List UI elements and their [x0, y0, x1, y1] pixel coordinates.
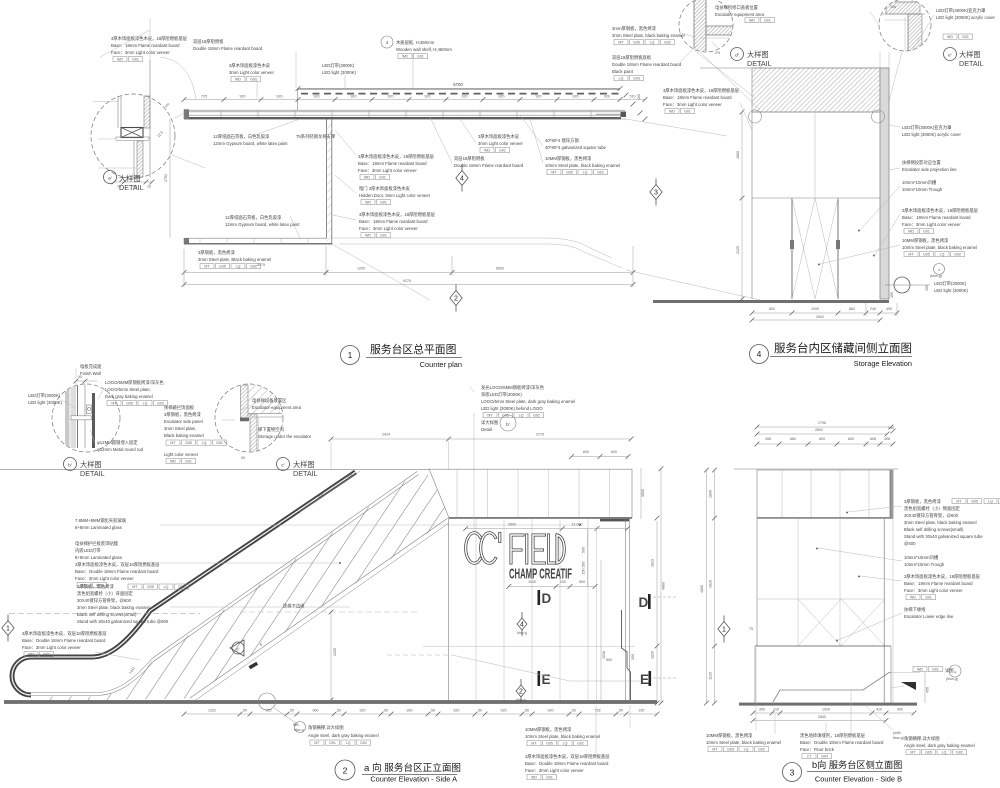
svg-text:3厚钢板，黑色烤漆: 3厚钢板，黑色烤漆 [198, 249, 235, 256]
svg-text:MT: MT [204, 265, 210, 269]
svg-text:WD: WD [365, 234, 371, 238]
svg-text:G02: G02 [577, 742, 584, 746]
svg-text:10MM厚钢板，黑色烤漆: 10MM厚钢板，黑色烤漆 [706, 732, 753, 739]
svg-text:Base：18mm Flame reardant board: Base：18mm Flame reardant board [358, 161, 427, 166]
svg-text:2: 2 [454, 296, 458, 303]
svg-text:4: 4 [938, 268, 940, 272]
svg-text:3mm Light color veneer: 3mm Light color veneer [478, 141, 523, 146]
svg-text:G01: G01 [380, 201, 387, 205]
svg-text:G02: G02 [360, 741, 367, 745]
svg-text:b向 服务台区侧立面图: b向 服务台区侧立面图 [812, 759, 902, 770]
svg-text:G03: G03 [633, 77, 640, 81]
svg-text:Base：Double 18mm Flame reardan: Base：Double 18mm Flame reardant board [800, 740, 884, 745]
svg-text:3mm Steel plate, black baking: 3mm Steel plate, black baking enamel [77, 605, 150, 610]
svg-text:Black self drilling screws(sma: Black self drilling screws(small) [904, 527, 964, 532]
svg-text:75系列轻钢龙骨支撑: 75系列轻钢龙骨支撑 [296, 133, 336, 140]
svg-text:3: 3 [790, 768, 795, 778]
svg-text:G01: G01 [43, 653, 50, 657]
svg-text:1000: 1000 [811, 307, 819, 311]
svg-text:1100: 1100 [528, 580, 536, 584]
svg-text:DETAIL: DETAIL [293, 469, 318, 478]
svg-text:内嵌LED灯带: 内嵌LED灯带 [75, 547, 101, 554]
svg-text:详大样图: 详大样图 [481, 419, 498, 426]
svg-text:510: 510 [630, 95, 636, 99]
svg-text:10mm*10mm Trough: 10mm*10mm Trough [902, 187, 943, 192]
svg-text:G02: G02 [597, 171, 604, 175]
svg-text:LQ: LQ [988, 500, 993, 504]
svg-text:(bkw-g): (bkw-g) [930, 274, 942, 278]
svg-text:920: 920 [548, 709, 554, 713]
svg-text:Double 18mm Flame reardant boa: Double 18mm Flame reardant board [612, 62, 682, 67]
svg-text:Stand with 30x40 galvanized sq: Stand with 30x40 galvanized square tube … [77, 619, 169, 624]
svg-text:LQ: LQ [202, 441, 207, 445]
svg-text:LQ: LQ [346, 741, 351, 745]
svg-text:LED light (3000K): LED light (3000K) [28, 400, 62, 405]
svg-text:40*80*4 镀锌方钢: 40*80*4 镀锌方钢 [545, 137, 579, 144]
svg-text:LED灯带(3000K): LED灯带(3000K) [28, 392, 61, 399]
svg-text:LED light (3000K) acrylic cove: LED light (3000K) acrylic cover [936, 15, 996, 20]
svg-text:WD: WD [908, 230, 914, 234]
svg-text:bkw-g: bkw-g [517, 631, 527, 635]
svg-text:G01: G01 [962, 35, 969, 39]
svg-text:LOGO/6mm Steel plate,: LOGO/6mm Steel plate, [105, 387, 151, 392]
svg-text:黑色组宽螺栓（小）侧面固定: 黑色组宽螺栓（小）侧面固定 [904, 505, 961, 512]
svg-text:Black baking enamel: Black baking enamel [164, 433, 204, 438]
svg-text:2796: 2796 [818, 421, 826, 425]
svg-text:发光LOGO/6MM钢板烤漆/深灰色: 发光LOGO/6MM钢板烤漆/深灰色 [481, 384, 545, 391]
svg-text:725: 725 [201, 95, 207, 99]
svg-text:W6: W6 [293, 723, 298, 727]
svg-text:400: 400 [637, 94, 641, 100]
svg-text:c': c' [237, 647, 240, 652]
svg-text:3厚木饰面板漆色木皮，18厚阻燃板基层: 3厚木饰面板漆色木皮，18厚阻燃板基层 [663, 87, 740, 94]
svg-text:LQ: LQ [744, 748, 749, 752]
svg-text:3厚钢板，黑色烤漆: 3厚钢板，黑色烤漆 [904, 498, 941, 505]
svg-text:728: 728 [595, 709, 601, 713]
svg-text:862: 862 [849, 307, 855, 311]
svg-text:Counter Elevation - Side B: Counter Elevation - Side B [815, 775, 902, 784]
svg-text:G01: G01 [923, 230, 930, 234]
svg-text:1860: 1860 [736, 151, 740, 159]
svg-text:920: 920 [462, 95, 468, 99]
svg-text:Base：Double 18mm Flame reardan: Base：Double 18mm Flame reardant board [75, 569, 159, 574]
svg-text:LQ: LQ [940, 253, 945, 257]
svg-text:210: 210 [773, 708, 779, 712]
svg-text:(with: (with [893, 731, 901, 735]
svg-text:2%: 2% [715, 51, 721, 55]
svg-text:MT: MT [531, 742, 537, 746]
svg-text:Face：3mm Light color veneer: Face：3mm Light color veneer [75, 576, 134, 581]
svg-text:2: 2 [519, 689, 523, 696]
svg-text:Face：3mm Light color veneer: Face：3mm Light color veneer [525, 768, 584, 773]
svg-text:Face：3mm Light color veneer: Face：3mm Light color veneer [111, 50, 170, 55]
svg-text:LQ: LQ [942, 751, 947, 755]
svg-text:bkw-g: bkw-g [516, 698, 526, 702]
svg-text:Dark gray baking enamel: Dark gray baking enamel [105, 394, 153, 399]
svg-text:680: 680 [790, 437, 796, 441]
svg-text:LOGO/6MM厚钢板烤漆/深灰色: LOGO/6MM厚钢板烤漆/深灰色 [105, 379, 164, 386]
svg-text:扶梯下缘线: 扶梯下缘线 [904, 606, 926, 613]
svg-text:Stand with 30x40 galvanized sq: Stand with 30x40 galvanized square tube [904, 534, 983, 539]
svg-text:Escalator equipment area: Escalator equipment area [252, 405, 302, 410]
svg-text:扶梯侧投影对应位置: 扶梯侧投影对应位置 [902, 159, 941, 166]
svg-text:WD: WD [947, 35, 953, 39]
svg-text:Face：3mm Light color veneer: Face：3mm Light color veneer [902, 222, 961, 227]
svg-text:410: 410 [876, 708, 882, 712]
svg-text:LOGO/6mm Steel plate, dark gra: LOGO/6mm Steel plate, dark gray baking e… [481, 399, 575, 404]
svg-text:40*80*4 galvanized square tube: 40*80*4 galvanized square tube [545, 145, 607, 150]
svg-text:Escalator Lower edge line: Escalator Lower edge line [904, 614, 954, 619]
svg-text:920: 920 [536, 95, 542, 99]
svg-text:DETAIL: DETAIL [747, 59, 772, 68]
svg-text:G05: G05 [185, 441, 192, 445]
svg-text:CT: CT [807, 755, 813, 759]
svg-text:920: 920 [407, 709, 413, 713]
svg-text:WD: WD [484, 149, 490, 153]
svg-text:Storage Elevation: Storage Elevation [854, 359, 912, 368]
svg-text:3mm Steel plate, black baking: 3mm Steel plate, black baking enamel [612, 33, 685, 38]
svg-text:30X40镀锌方管骨架，@600: 30X40镀锌方管骨架，@600 [904, 512, 959, 519]
svg-text:G05: G05 [126, 402, 133, 406]
svg-text:大样图: 大样图 [747, 50, 769, 59]
svg-text:50: 50 [243, 709, 247, 713]
svg-text:服务台区总平面图: 服务台区总平面图 [370, 342, 456, 356]
svg-text:LED light (3000K) acrylic cove: LED light (3000K) acrylic cover [902, 132, 962, 137]
svg-text:LQ: LQ [650, 41, 655, 45]
svg-text:Base：Double 18mm Flame reardan: Base：Double 18mm Flame reardant board [22, 638, 106, 643]
svg-text:G02: G02 [250, 265, 257, 269]
svg-text:Escalator side panel: Escalator side panel [164, 419, 203, 424]
svg-text:50: 50 [431, 709, 435, 713]
svg-text:498: 498 [884, 437, 890, 441]
svg-text:LQ: LQ [519, 414, 524, 418]
svg-text:920: 920 [604, 95, 610, 99]
svg-text:Counter plan: Counter plan [420, 360, 462, 369]
svg-text:1920: 1920 [822, 708, 830, 712]
svg-text:大样图: 大样图 [959, 50, 981, 59]
svg-text:10MM厚钢板，黑色烤漆: 10MM厚钢板，黑色烤漆 [902, 237, 949, 244]
svg-text:Base：Double 18mm Flame reardan: Base：Double 18mm Flame reardant board [525, 761, 609, 766]
svg-text:Face：3mm Light color veneer: Face：3mm Light color veneer [358, 168, 417, 173]
svg-text:MT: MT [712, 748, 718, 752]
svg-text:Double 18mm Flame reardant boa: Double 18mm Flame reardant board [454, 163, 524, 168]
svg-text:50: 50 [572, 709, 576, 713]
svg-text:E: E [640, 672, 649, 687]
svg-text:G05: G05 [147, 585, 154, 589]
svg-text:WD: WD [910, 596, 916, 600]
svg-text:400: 400 [897, 708, 903, 712]
svg-text:黑色组宽螺栓（小）背面固定: 黑色组宽螺栓（小）背面固定 [77, 590, 134, 597]
svg-text:920: 920 [351, 95, 357, 99]
svg-text:LED light (3000K) behind LOGO: LED light (3000K) behind LOGO [481, 406, 543, 411]
svg-text:4: 4 [520, 622, 524, 629]
svg-text:梯下置物空间: 梯下置物空间 [258, 426, 284, 433]
svg-text:Light color veneer: Light color veneer [164, 452, 199, 457]
svg-text:1322: 1322 [208, 709, 216, 713]
svg-text:920: 920 [266, 709, 272, 713]
svg-text:WD: WD [669, 110, 675, 114]
svg-text:Finish Wall: Finish Wall [80, 371, 101, 376]
svg-text:e': e' [948, 53, 952, 59]
svg-text:1813: 1813 [651, 559, 655, 567]
svg-text:200: 200 [560, 580, 566, 584]
svg-text:G05: G05 [925, 751, 932, 755]
svg-text:12厚纸面石膏板，白色乳胶漆: 12厚纸面石膏板，白色乳胶漆 [225, 214, 282, 221]
svg-text:50: 50 [525, 709, 529, 713]
svg-text:电扶梯护拦板装饰贴膜: 电扶梯护拦板装饰贴膜 [75, 540, 119, 547]
svg-text:φ12MM圆钢埋入固定: φ12MM圆钢埋入固定 [97, 439, 138, 446]
svg-text:DETAIL: DETAIL [119, 183, 144, 192]
svg-text:10mm*10mm凹槽: 10mm*10mm凹槽 [902, 179, 937, 186]
svg-text:MT: MT [908, 253, 914, 257]
svg-text:4: 4 [954, 671, 956, 675]
svg-text:D: D [639, 595, 649, 610]
svg-text:双层18厚阻燃板底板: 双层18厚阻燃板底板 [612, 54, 652, 61]
svg-text:Base：18mm Flame reardant board: Base：18mm Flame reardant board [904, 581, 973, 586]
svg-text:Counter Elevation - Side A: Counter Elevation - Side A [370, 775, 457, 784]
svg-text:15: 15 [147, 185, 151, 189]
svg-text:G02: G02 [758, 748, 765, 752]
svg-text:500: 500 [579, 580, 585, 584]
svg-text:1: 1 [722, 627, 726, 634]
svg-text:3厚木饰面板漆色木皮，18厚阻燃板基层: 3厚木饰面板漆色木皮，18厚阻燃板基层 [902, 207, 979, 214]
svg-text:150: 150 [890, 292, 894, 298]
svg-text:bkw-g): bkw-g) [893, 736, 904, 740]
svg-text:G01: G01 [925, 596, 932, 600]
svg-text:920: 920 [499, 95, 505, 99]
svg-text:2800: 2800 [508, 523, 516, 527]
svg-text:MT: MT [551, 171, 557, 175]
svg-text:2840: 2840 [818, 715, 826, 719]
svg-text:黑色地砖填缝剂，18厚阻燃板基层: 黑色地砖填缝剂，18厚阻燃板基层 [800, 732, 866, 739]
svg-text:G01: G01 [499, 149, 506, 153]
svg-text:φ12mm Metal round rod: φ12mm Metal round rod [97, 447, 144, 452]
svg-text:6700: 6700 [453, 82, 463, 87]
svg-text:LED灯带(3000K)亚克力罩: LED灯带(3000K)亚克力罩 [902, 124, 952, 131]
svg-text:G01: G01 [250, 78, 257, 82]
svg-text:Base：18mm Flame reardant board: Base：18mm Flame reardant board [663, 95, 732, 100]
svg-text:7.8MM+8MM钢化夹胶玻璃: 7.8MM+8MM钢化夹胶玻璃 [75, 517, 127, 524]
svg-text:920: 920 [425, 95, 431, 99]
svg-text:G05: G05 [727, 748, 734, 752]
svg-text:3厚木饰面板漆色木皮，18厚阻燃板基层: 3厚木饰面板漆色木皮，18厚阻燃板基层 [111, 35, 188, 42]
svg-text:920: 920 [314, 95, 320, 99]
svg-text:10mm*10mm Trough: 10mm*10mm Trough [904, 562, 945, 567]
svg-text:1200: 1200 [357, 267, 365, 271]
svg-text:G01: G01 [546, 776, 553, 780]
svg-text:4860: 4860 [700, 585, 704, 593]
svg-text:600: 600 [848, 437, 854, 441]
svg-text:920: 920 [501, 709, 507, 713]
svg-text:暗门 3厚木饰面板漆色木皮: 暗门 3厚木饰面板漆色木皮 [359, 185, 411, 192]
svg-text:大样图: 大样图 [119, 174, 141, 183]
svg-text:角钢横撑,详大样图: 角钢横撑,详大样图 [904, 735, 940, 742]
svg-text:扶梯下边缘: 扶梯下边缘 [283, 603, 305, 610]
svg-text:2424: 2424 [382, 433, 390, 437]
svg-text:Face：3mm Light color veneer: Face：3mm Light color veneer [359, 226, 418, 231]
svg-text:3mm Steel plate, Black baking: 3mm Steel plate, Black baking enamel [198, 257, 271, 262]
svg-text:450: 450 [925, 285, 929, 291]
svg-text:b': b' [68, 463, 72, 469]
svg-text:900: 900 [313, 709, 319, 713]
svg-text:WD: WD [170, 460, 176, 464]
svg-text:Escalator side projection line: Escalator side projection line [902, 167, 957, 172]
svg-text:WD: WD [402, 55, 408, 59]
svg-text:G01: G01 [932, 668, 939, 672]
svg-text:MT: MT [956, 500, 962, 504]
svg-text:G01: G01 [764, 19, 771, 23]
svg-text:Black paint: Black paint [612, 69, 634, 74]
svg-text:扶梯蔽拦饰面板: 扶梯蔽拦饰面板 [164, 404, 195, 411]
svg-text:MT: MT [618, 41, 624, 45]
svg-text:350: 350 [631, 654, 635, 660]
svg-text:600: 600 [819, 437, 825, 441]
svg-text:Angle steel, dark gray baking: Angle steel, dark gray baking enamel [308, 733, 379, 738]
svg-text:50: 50 [337, 709, 341, 713]
svg-text:50: 50 [290, 709, 294, 713]
svg-text:Black self drilling screws(sma: Black self drilling screws(small) [77, 612, 137, 617]
svg-text:2752: 2752 [164, 174, 168, 182]
svg-text:600: 600 [611, 450, 617, 454]
svg-text:10mm Steel plate, black baking: 10mm Steel plate, black baking enamel [545, 163, 620, 168]
svg-text:G04: G04 [821, 755, 828, 759]
svg-text:D: D [542, 591, 552, 606]
svg-text:G01: G01 [380, 234, 387, 238]
svg-text:1826: 1826 [709, 580, 713, 588]
svg-text:2205: 2205 [333, 648, 337, 656]
svg-text:LED灯带(3000K): LED灯带(3000K) [322, 62, 355, 69]
svg-text:8+8mm Laminated glass: 8+8mm Laminated glass [75, 555, 122, 560]
svg-text:LED light (3000K): LED light (3000K) [934, 288, 968, 293]
svg-text:3厚木饰面板漆色木皮: 3厚木饰面板漆色木皮 [478, 133, 520, 140]
svg-text:12mm Gypsum board, white latex: 12mm Gypsum board, white latex paint [225, 222, 300, 227]
svg-text:服务台内区储藏间侧立面图: 服务台内区储藏间侧立面图 [774, 341, 912, 355]
svg-text:150 350: 150 350 [582, 562, 586, 575]
svg-text:920: 920 [360, 709, 366, 713]
svg-text:8+8mm Laminated glass: 8+8mm Laminated glass [75, 525, 122, 530]
svg-text:2125: 2125 [736, 246, 740, 254]
svg-text:1: 1 [348, 350, 353, 360]
svg-text:电扶梯检修口盖板位置: 电扶梯检修口盖板位置 [715, 4, 759, 11]
svg-text:3厚木饰面板漆色木皮，双层18厚阻燃板基层: 3厚木饰面板漆色木皮，双层18厚阻燃板基层 [75, 561, 160, 568]
svg-text:140: 140 [888, 426, 894, 430]
svg-text:350: 350 [759, 708, 765, 712]
svg-text:5800: 5800 [496, 267, 504, 271]
svg-text:G01: G01 [185, 460, 192, 464]
svg-text:LQ: LQ [619, 77, 624, 81]
svg-text:WD: WD [531, 776, 537, 780]
svg-text:608: 608 [870, 437, 876, 441]
svg-text:3厚木饰面板漆色木皮，18厚阻燃板基层: 3厚木饰面板漆色木皮，18厚阻燃板基层 [358, 153, 435, 160]
svg-text:bkw-g: bkw-g [294, 728, 304, 732]
svg-text:500: 500 [606, 658, 612, 662]
svg-text:3mm Steel plate,: 3mm Steel plate, [164, 426, 196, 431]
svg-text:G01: G01 [379, 176, 386, 180]
svg-text:Angle steel, dark gray baking: Angle steel, dark gray baking enamel [904, 743, 975, 748]
svg-text:双层18厚阻燃板: 双层18厚阻燃板 [193, 38, 224, 45]
svg-text:230: 230 [639, 709, 645, 713]
svg-text:920: 920 [388, 95, 394, 99]
svg-text:3厚钢板，黑色烤漆: 3厚钢板，黑色烤漆 [77, 583, 114, 590]
svg-text:G05: G05 [546, 742, 553, 746]
svg-text:LED灯带(3000K): LED灯带(3000K) [934, 280, 967, 287]
svg-text:3775: 3775 [536, 433, 544, 437]
svg-text:LED灯带(3000K)亚克力罩: LED灯带(3000K)亚克力罩 [936, 7, 986, 14]
svg-text:2: 2 [343, 766, 348, 776]
svg-text:大样图: 大样图 [293, 460, 315, 469]
svg-text:2602: 2602 [816, 315, 824, 319]
svg-text:920: 920 [573, 95, 579, 99]
svg-text:10mm Steel plate, black baking: 10mm Steel plate, black baking enamel [525, 734, 600, 739]
svg-text:b': b' [506, 422, 510, 428]
svg-text:背嵌LED灯带(3000K): 背嵌LED灯带(3000K) [481, 391, 522, 398]
svg-text:G02: G02 [956, 751, 963, 755]
svg-text:4: 4 [757, 349, 762, 359]
svg-text:75: 75 [749, 627, 753, 631]
svg-text:3厚木饰面板漆色木皮: 3厚木饰面板漆色木皮 [229, 62, 271, 69]
svg-text:Face：3mm Light color veneer: Face：3mm Light color veneer [663, 102, 722, 107]
svg-text:WD: WD [749, 19, 755, 23]
svg-text:Detail: Detail [481, 427, 492, 432]
svg-text:G01: G01 [684, 110, 691, 114]
svg-text:10mm Steel plate, black baking: 10mm Steel plate, black baking enamel [706, 740, 781, 745]
svg-text:LQ: LQ [143, 402, 148, 406]
svg-text:大样图: 大样图 [80, 460, 102, 469]
svg-text:G01: G01 [132, 58, 139, 62]
svg-text:G01: G01 [178, 585, 185, 589]
svg-text:3mm Light color veneer: 3mm Light color veneer [229, 70, 274, 75]
svg-text:G05: G05 [923, 253, 930, 257]
svg-text:500: 500 [582, 547, 586, 553]
svg-text:920: 920 [240, 95, 246, 99]
svg-text:@600: @600 [904, 541, 916, 546]
svg-text:240: 240 [870, 307, 876, 311]
svg-text:1: 1 [6, 626, 10, 633]
svg-text:Double 18mm Flame reardant boa: Double 18mm Flame reardant board [193, 46, 263, 51]
svg-text:3mm Steel plate, black baking: 3mm Steel plate, black baking enamel [904, 520, 977, 525]
svg-text:E: E [542, 672, 551, 687]
svg-text:30X40镀锌方管骨架，@600: 30X40镀锌方管骨架，@600 [77, 597, 132, 604]
svg-text:10#: 10# [890, 5, 896, 9]
svg-text:墙板完成面: 墙板完成面 [80, 363, 102, 370]
svg-text:450: 450 [926, 687, 930, 693]
svg-text:LQ: LQ [583, 171, 588, 175]
svg-text:50: 50 [619, 709, 623, 713]
svg-text:MT: MT [132, 585, 138, 589]
svg-text:DETAIL: DETAIL [959, 59, 984, 68]
svg-text:MT: MT [314, 741, 320, 745]
svg-text:WD: WD [364, 176, 370, 180]
svg-text:Wooden wall shelf, H;450mm: Wooden wall shelf, H;450mm [396, 47, 452, 52]
svg-text:90: 90 [241, 456, 245, 460]
svg-text:G01: G01 [329, 741, 336, 745]
svg-text:LED light (3000K): LED light (3000K) [322, 70, 356, 75]
svg-text:600: 600 [583, 450, 589, 454]
svg-text:G05: G05 [971, 500, 978, 504]
svg-text:2602: 2602 [815, 428, 823, 432]
svg-text:LQ: LQ [563, 742, 568, 746]
svg-text:10MM厚钢板，黑色烤漆: 10MM厚钢板，黑色烤漆 [545, 155, 592, 162]
svg-text:800: 800 [769, 307, 775, 311]
svg-text:LQ: LQ [164, 585, 169, 589]
svg-text:WD: WD [917, 668, 923, 672]
svg-text:4860: 4860 [662, 582, 666, 590]
svg-text:9275: 9275 [403, 279, 411, 283]
svg-text:Storage under the escalator: Storage under the escalator [258, 434, 312, 439]
svg-text:1800: 1800 [709, 490, 713, 498]
svg-text:920: 920 [454, 709, 460, 713]
svg-text:角钢横撑,详大样图: 角钢横撑,详大样图 [308, 724, 344, 731]
